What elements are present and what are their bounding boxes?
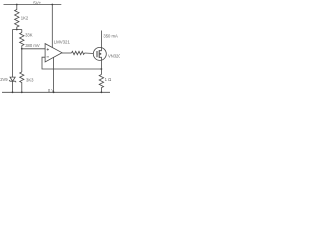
- wire gate resistor to MOSFET gate: [85, 52, 97, 55]
- svg-text:1 Ω: 1 Ω: [105, 77, 112, 82]
- wire 5V+ top rail: [4, 4, 62, 6]
- op-amp plus input mark: [47, 48, 49, 50]
- transistor Q1 drain stub: [99, 48, 101, 51]
- resistor R5 1 ohm: [99, 75, 103, 93]
- wire node A horizontal: [13, 29, 22, 31]
- resistor R2 33K: [20, 33, 24, 49]
- svg-text:VN3205: VN3205: [108, 53, 120, 58]
- node feedback junction at source: [101, 68, 103, 70]
- wire ground rail 0V: [2, 91, 110, 93]
- svg-text:LMV321: LMV321: [54, 40, 71, 45]
- svg-text:3K3: 3K3: [26, 77, 34, 82]
- wire op-amp output: [62, 52, 72, 54]
- node junction rail/opamp V+: [51, 4, 53, 6]
- transistor Q1 body arrow: [100, 53, 101, 55]
- transistor Q1 gate bar: [96, 51, 98, 57]
- transistor Q1 source stub: [99, 57, 101, 60]
- resistor R1 1K2: [15, 5, 19, 30]
- node A junction 1K2/zener/33K: [16, 29, 18, 31]
- resistor R3 3K3: [20, 72, 24, 92]
- node ground junction 1 ohm: [101, 91, 103, 93]
- svg-text:5V+: 5V+: [33, 0, 41, 5]
- node ground junction op-amp V-: [53, 91, 55, 93]
- zener diode D1 2V9: [10, 77, 15, 81]
- svg-text:0 V: 0 V: [48, 88, 54, 93]
- op-amp U1 LMV321: [45, 44, 62, 62]
- transistor Q1 channel bar: [98, 50, 100, 58]
- node ground junction zener: [12, 91, 14, 93]
- node ground junction 3K3: [21, 91, 23, 93]
- wire op-amp V- pin to ground: [53, 57, 55, 92]
- svg-text:33K: 33K: [25, 32, 33, 37]
- svg-text:380 mV: 380 mV: [25, 43, 40, 48]
- wire op-amp minus input feedback: [42, 57, 101, 69]
- node 380mV junction: [21, 48, 23, 50]
- wire 380mV to op-amp + input: [22, 48, 45, 50]
- wire zener branch vertical: [12, 30, 14, 78]
- wire op-amp V+ pin: [51, 5, 53, 48]
- resistor R4 gate resistor: [72, 51, 85, 54]
- transistor Q1 VN3205 circle: [93, 47, 106, 60]
- svg-text:350 mA: 350 mA: [103, 33, 118, 38]
- op-amp minus input mark: [47, 56, 49, 58]
- svg-text:2V9: 2V9: [0, 77, 8, 82]
- wire drain up 350mA: [100, 31, 102, 48]
- transistor Q1 body stub: [99, 53, 101, 55]
- wire source down: [100, 60, 102, 74]
- svg-text:1K2: 1K2: [21, 15, 29, 20]
- wire 33K bottom to 3K3: [21, 49, 23, 72]
- wire 33K top lead: [21, 30, 23, 33]
- node junction rail/1K2: [16, 4, 18, 6]
